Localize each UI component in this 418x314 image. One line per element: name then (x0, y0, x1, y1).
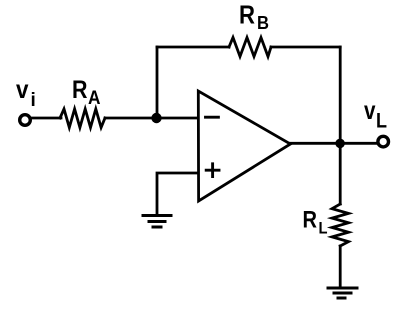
svg-text:R: R (239, 0, 255, 30)
wire RA to op-amp (105, 117, 198, 120)
wire output node to RL (339, 143, 342, 204)
svg-text:L: L (319, 219, 328, 238)
op-amp minus sign (206, 116, 219, 119)
wire right vertical to output node (339, 47, 342, 143)
op-amp U1 (198, 91, 290, 201)
svg-text:R: R (72, 76, 88, 104)
node A junction dot (151, 113, 161, 123)
resistor RB (229, 38, 271, 57)
wire node A up to feedback (156, 47, 159, 118)
wire input to RA (31, 117, 61, 120)
resistor RA (60, 109, 105, 128)
ground (op-amp non-inverting input) (143, 216, 171, 228)
svg-text:A: A (88, 88, 101, 109)
svg-text:L: L (376, 110, 387, 133)
node B output junction dot (335, 139, 345, 149)
wire plus input to ground (157, 173, 198, 214)
svg-text:v: v (364, 95, 376, 125)
ground (below RL) (328, 288, 357, 298)
svg-text:B: B (257, 12, 269, 33)
wire RL to ground (339, 246, 342, 288)
svg-text:R: R (303, 207, 318, 234)
output terminal vL (378, 136, 389, 147)
op-amp plus sign (206, 164, 219, 177)
wire op-amp output (290, 142, 377, 145)
wire feedback left segment (157, 46, 229, 49)
input terminal vi (20, 115, 31, 126)
svg-text:i: i (31, 90, 36, 111)
svg-text:v: v (16, 76, 29, 104)
resistor RL (332, 204, 349, 246)
wire feedback right segment (271, 46, 340, 49)
